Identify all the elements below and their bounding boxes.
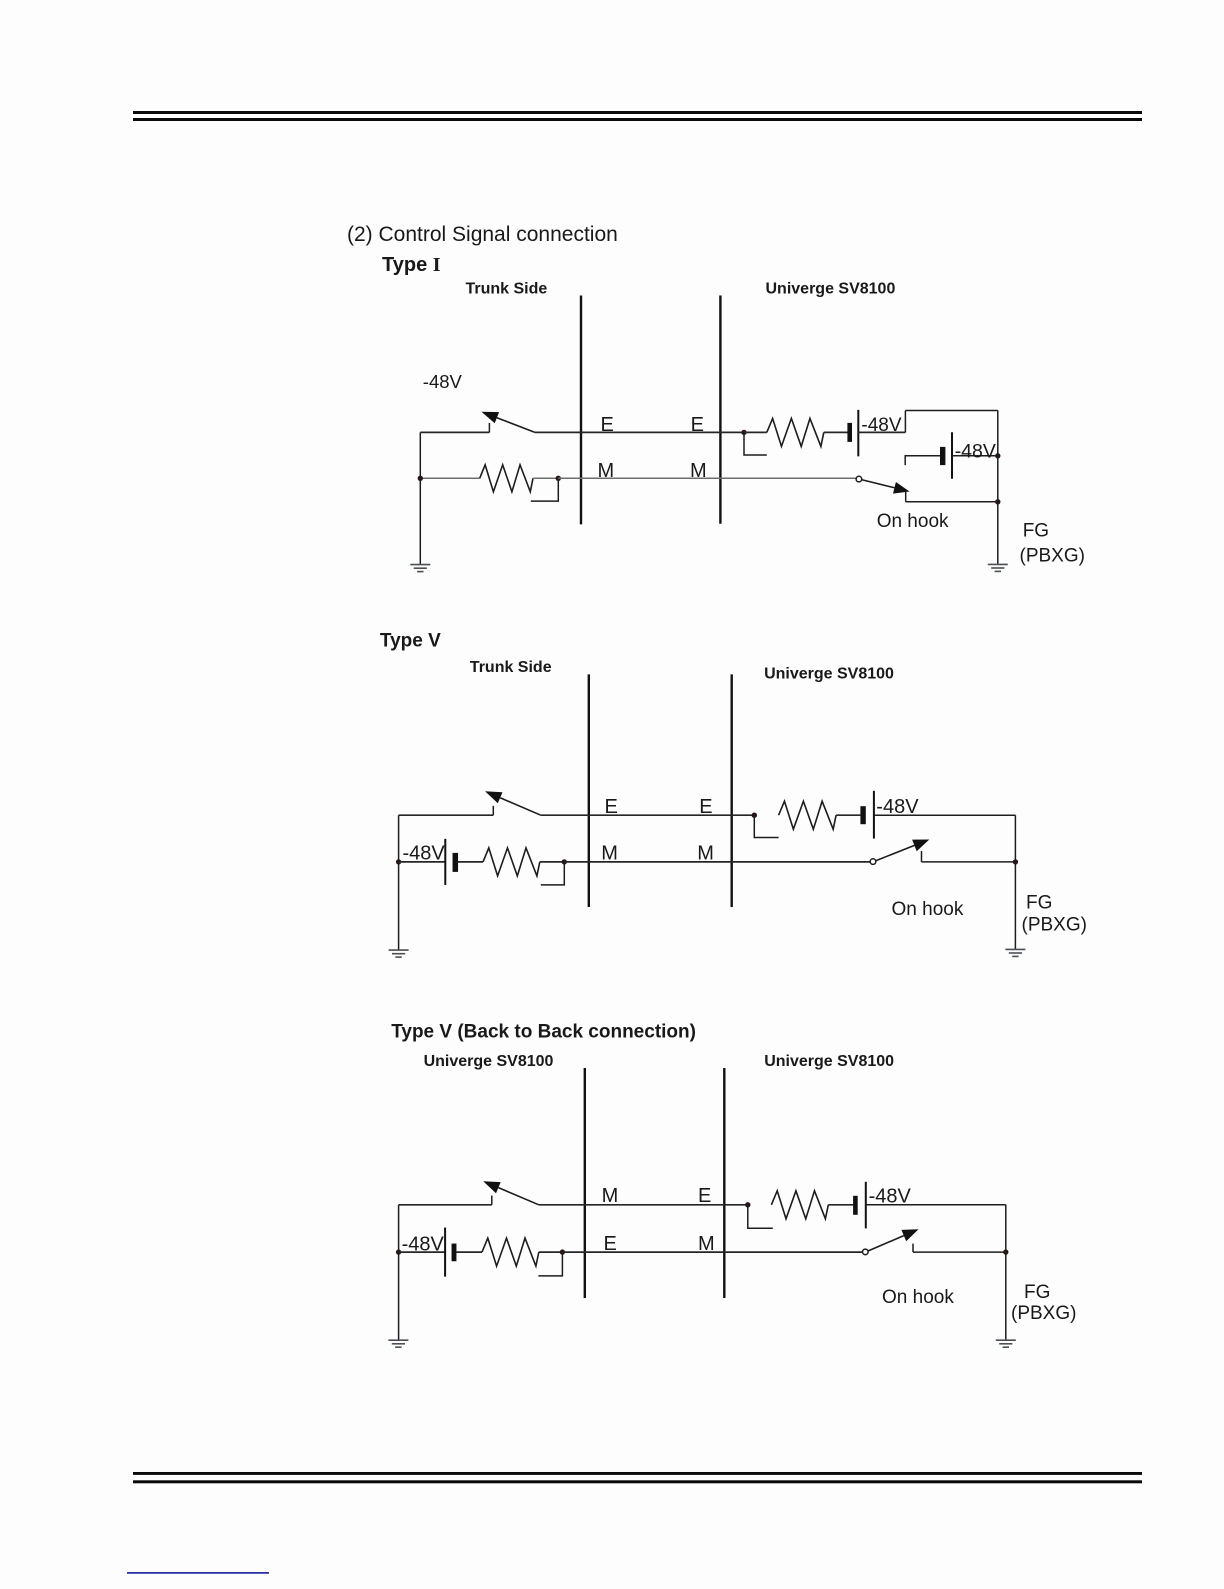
svg-text:E: E — [691, 414, 704, 436]
Type I on-hook switch arm with arrowhead — [861, 480, 894, 488]
Type V wire E left segment — [399, 814, 494, 816]
Type V on-hook fixed contact stub — [921, 851, 923, 862]
B2B wire switch to FG — [913, 1251, 1006, 1253]
B2B wire resistor to junction — [539, 1251, 563, 1253]
Type V trunk switch arm with arrowhead — [500, 798, 541, 815]
Type V FG ground — [1005, 948, 1025, 950]
Type I hook under M junction — [531, 478, 559, 501]
B2B wire battery to resistor — [457, 1251, 483, 1253]
Type V node switch-FG junction — [1013, 859, 1018, 864]
B2B hook under E junction — [748, 1205, 773, 1229]
svg-text:Type V (Back to Back connectio: Type V (Back to Back connection) — [391, 1022, 696, 1043]
Type V node M left junction — [396, 859, 401, 864]
Type I resistor R (E lead) — [767, 418, 824, 446]
Type V battery BT2 negative plate — [444, 839, 446, 885]
B2B node bottom junction — [560, 1249, 565, 1254]
B2B FG ground — [996, 1339, 1016, 1341]
B2B FG vertical wire — [1005, 1205, 1007, 1340]
svg-text:FG: FG — [1024, 1282, 1050, 1303]
B2B on-hook switch arm with arrowhead — [868, 1236, 904, 1251]
svg-text:On hook: On hook — [882, 1287, 954, 1308]
Type V on-hook switch arm with arrowhead — [876, 845, 915, 860]
B2B node switch-FG junction — [1003, 1249, 1008, 1254]
Type V wire resistor to battery — [836, 814, 860, 816]
svg-text:(PBXG): (PBXG) — [1020, 546, 1085, 567]
Type I trunk vertical wire — [419, 432, 421, 564]
svg-text:-48V: -48V — [423, 371, 463, 392]
Type V battery BT2 positive plate — [453, 853, 459, 872]
Type V on-hook switch open contact — [870, 859, 876, 865]
Type V trunk vertical wire — [398, 815, 400, 949]
B2B wire bottom to battery — [399, 1251, 446, 1253]
Type V resistor R (E lead) — [779, 801, 837, 829]
Type I wire switch to FG — [906, 501, 998, 503]
Type I wire box left riser — [904, 411, 906, 433]
B2B resistor R (E lead) — [771, 1191, 828, 1219]
svg-text:Type I: Type I — [382, 254, 441, 276]
Type I node M left junction — [418, 476, 423, 481]
page footer double rule — [133, 1472, 1142, 1483]
Type I wire E to resistor — [744, 431, 767, 433]
B2B battery BT2 negative plate — [444, 1228, 446, 1277]
B2B demarcation line right — [723, 1068, 725, 1298]
svg-text:Trunk Side: Trunk Side — [470, 659, 552, 676]
svg-text:(PBXG): (PBXG) — [1011, 1303, 1076, 1324]
Type I wire M left segment — [420, 477, 479, 479]
svg-text:E: E — [699, 796, 712, 818]
Type I switch fixed contact stub — [488, 423, 490, 432]
svg-text:FG: FG — [1026, 893, 1052, 914]
Type I trunk ground — [410, 564, 430, 566]
Type I wire battery BT2 to FG — [952, 455, 998, 457]
B2B wire resistor to battery — [828, 1204, 853, 1206]
Type V wire battery to FG corner — [874, 814, 1016, 816]
svg-text:Univerge SV8100: Univerge SV8100 — [764, 1053, 894, 1070]
svg-text:-48V: -48V — [403, 843, 446, 865]
Type V hook under E junction — [754, 815, 778, 837]
Type V switch fixed contact stub — [492, 806, 494, 815]
svg-text:Trunk Side: Trunk Side — [466, 281, 548, 298]
Type V battery BT1 positive plate — [860, 806, 865, 824]
B2B trunk vertical wire — [398, 1205, 400, 1340]
Type I trunk switch arm with arrowhead — [497, 418, 535, 433]
Type I node M junction — [556, 476, 561, 481]
svg-text:E: E — [601, 414, 614, 436]
Type V hook under M junction — [541, 862, 565, 885]
Type V wire E middle segment — [541, 814, 755, 816]
Type I wire box top — [905, 410, 997, 412]
Type I battery BT1 negative plate — [857, 410, 859, 457]
Type I hook under E junction — [744, 432, 767, 455]
B2B node E junction — [745, 1202, 750, 1207]
Type I wire E middle segment — [535, 431, 744, 433]
svg-text:E: E — [605, 796, 618, 818]
Type V wire battery to resistor — [458, 861, 484, 863]
Type V FG vertical wire — [1014, 815, 1016, 949]
svg-text:Type V: Type V — [380, 631, 441, 652]
svg-text:M: M — [698, 1233, 715, 1255]
page header double rule — [133, 111, 1142, 121]
Type I on-hook switch open contact — [856, 476, 862, 482]
svg-text:-48V: -48V — [402, 1234, 445, 1256]
Type I battery BT2 positive plate — [940, 447, 945, 465]
Type V battery BT1 negative plate — [873, 791, 875, 839]
B2B switch fixed contact stub — [491, 1196, 493, 1205]
svg-text:-48V: -48V — [955, 441, 996, 463]
Type V demarcation line right — [731, 674, 733, 907]
Type V node E junction — [752, 813, 757, 818]
Type V demarcation line left — [588, 674, 590, 907]
B2B trunk switch arm with arrowhead — [498, 1188, 538, 1205]
Type I wire resistor to M junction — [533, 477, 558, 479]
B2B hook under bottom junction — [538, 1252, 562, 1276]
svg-text:M: M — [697, 843, 714, 865]
Type V wire M to battery — [399, 861, 446, 863]
Type I wire E left segment — [420, 431, 489, 433]
B2B resistor R (bottom lead) — [482, 1238, 539, 1266]
Type I FG vertical wire — [997, 411, 999, 564]
B2B node bottom left junction — [396, 1249, 401, 1254]
Type I battery BT2 negative plate — [951, 432, 953, 479]
Type V trunk ground — [389, 949, 409, 951]
Type I wire resistor to battery — [824, 431, 848, 433]
Type I demarcation line right — [719, 296, 721, 524]
svg-text:M: M — [690, 460, 707, 482]
footer link underline — [127, 1572, 269, 1574]
Type I wire battery to box corner — [858, 431, 905, 433]
B2B on-hook fixed contact stub — [912, 1244, 914, 1253]
svg-text:FG: FG — [1023, 520, 1049, 541]
B2B wire top middle segment — [539, 1204, 748, 1206]
svg-text:On hook: On hook — [892, 899, 964, 920]
B2B battery BT1 negative plate — [865, 1182, 867, 1229]
Type V wire resistor to M junction — [540, 861, 565, 863]
svg-text:Univerge SV8100: Univerge SV8100 — [764, 666, 894, 683]
svg-text:(PBXG): (PBXG) — [1022, 915, 1087, 936]
Type V wire M middle segment — [564, 861, 870, 863]
B2B wire M top left segment — [399, 1204, 492, 1206]
Type I wire M middle segment — [558, 477, 856, 479]
Type I battery BT1 positive plate — [847, 423, 852, 442]
svg-text:Univerge SV8100: Univerge SV8100 — [424, 1053, 554, 1070]
B2B on-hook switch open contact — [863, 1249, 869, 1255]
svg-text:E: E — [604, 1233, 617, 1255]
svg-text:Univerge SV8100: Univerge SV8100 — [766, 281, 896, 298]
Type V node M junction — [562, 859, 567, 864]
svg-text:E: E — [698, 1185, 711, 1207]
B2B wire bottom middle segment — [562, 1251, 862, 1253]
svg-text:On hook: On hook — [877, 511, 949, 532]
B2B trunk ground — [388, 1339, 408, 1341]
Type V wire switch to FG — [922, 861, 1016, 863]
Type I demarcation line left — [580, 296, 582, 525]
Type I node switch-FG junction — [995, 499, 1000, 504]
B2B battery BT2 positive plate — [452, 1244, 457, 1262]
Type I battery BT2 left stub — [905, 456, 940, 465]
Type I node E junction — [741, 430, 746, 435]
Type I resistor R (M lead) — [480, 465, 533, 492]
svg-text:M: M — [602, 1185, 619, 1207]
Type I node battery-FG junction — [995, 453, 1000, 458]
svg-text:(2) Control Signal connection: (2) Control Signal connection — [347, 223, 618, 246]
Type I FG ground — [988, 563, 1008, 565]
Type I on-hook fixed contact stub — [905, 491, 907, 502]
B2B wire battery to FG corner — [866, 1204, 1006, 1206]
Type V resistor R (M lead) — [483, 848, 540, 876]
svg-text:M: M — [598, 460, 615, 482]
B2B battery BT1 positive plate — [853, 1196, 858, 1215]
B2B demarcation line left — [584, 1068, 586, 1298]
svg-text:M: M — [601, 843, 618, 865]
